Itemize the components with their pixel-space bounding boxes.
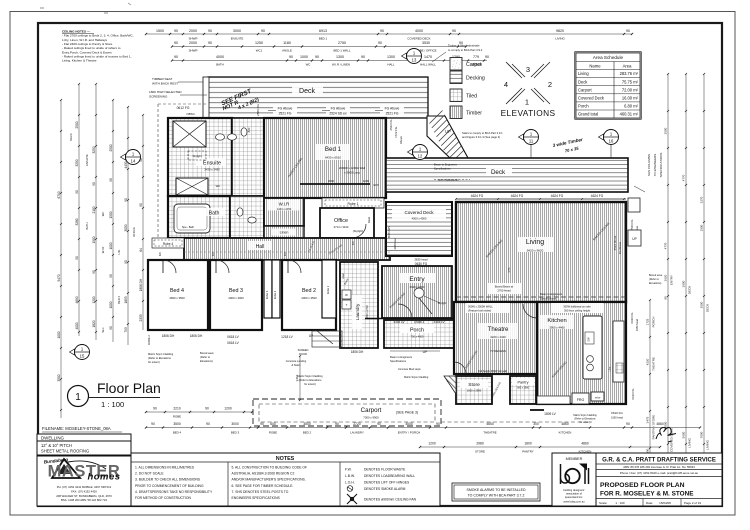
svg-text:Office: Office — [334, 218, 348, 224]
svg-text:Carport: Carport — [578, 87, 593, 92]
svg-text:4690 x 3500: 4690 x 3500 — [169, 296, 185, 300]
svg-text:Scale:: Scale: — [599, 501, 608, 505]
bed 4 — [148, 260, 208, 330]
svg-text:Bed 2: Bed 2 — [302, 288, 316, 294]
svg-text:90: 90 — [206, 422, 210, 426]
svg-text:Living, Kitchen & Theatre: Living, Kitchen & Theatre — [62, 59, 97, 63]
svg-text:0610 FG: 0610 FG — [611, 411, 623, 415]
svg-text:Store: Store — [468, 382, 480, 388]
svg-text:www.bdaq.com.au: www.bdaq.com.au — [563, 500, 585, 504]
svg-text:90: 90 — [436, 422, 440, 426]
svg-text:2404 LV: 2404 LV — [394, 320, 405, 324]
svg-text:90: 90 — [626, 29, 630, 33]
svg-text:Date:: Date: — [646, 501, 653, 505]
svg-text:4770: 4770 — [664, 242, 668, 249]
svg-text:4000: 4000 — [216, 55, 224, 59]
bath wc tiled strip — [230, 196, 264, 238]
title block — [596, 453, 722, 506]
svg-text:DENOTES ø900mm CEILING FAN: DENOTES ø900mm CEILING FAN — [364, 498, 417, 502]
member bdaq box — [552, 453, 596, 506]
svg-text:SHWR: SHWR — [189, 49, 198, 53]
beam dashes across living — [456, 296, 626, 298]
elevation marker 1/15 — [70, 345, 90, 360]
frg box — [572, 393, 589, 404]
svg-text:ANGLE: ANGLE — [282, 49, 292, 53]
svg-text:FG Above: FG Above — [618, 241, 622, 254]
svg-text:2750: 2750 — [338, 41, 346, 45]
svg-text:Above: Above — [399, 136, 403, 144]
svg-text:PRIOR TO COMMENCEMENT OF BUILD: PRIOR TO COMMENCEMENT OF BUILDING — [135, 484, 204, 488]
svg-text:1650 head: 1650 head — [636, 318, 639, 330]
svg-text:3280: 3280 — [75, 218, 79, 225]
svg-text:F.W.: F.W. — [345, 468, 352, 472]
kitchen bottom bench — [537, 396, 570, 404]
svg-text:3500: 3500 — [57, 374, 61, 381]
svg-text:WITH BACK REST: WITH BACK REST — [152, 82, 178, 86]
svg-text:12° & 10° PITCH: 12° & 10° PITCH — [41, 443, 72, 448]
svg-text:11: 11 — [529, 139, 534, 144]
svg-text:90: 90 — [335, 422, 339, 426]
robe strip right of bed 2 — [322, 260, 336, 318]
bed 3 — [210, 260, 262, 330]
svg-text:1800 HIGH SELECTED: 1800 HIGH SELECTED — [149, 90, 182, 94]
svg-text:to comply to BCA Part 3.9.2: to comply to BCA Part 3.9.2 — [448, 48, 483, 52]
svg-text:UP: UP — [445, 129, 451, 134]
svg-text:1600 x 2710: 1600 x 2710 — [366, 305, 369, 319]
svg-text:LIN.: LIN. — [117, 249, 121, 254]
svg-text:90: 90 — [208, 41, 212, 45]
bottom dimension row main — [146, 427, 700, 429]
svg-text:W.C: W.C — [101, 327, 105, 332]
svg-text:ELEVATIONS: ELEVATIONS — [501, 108, 556, 118]
legend carpet swatch — [450, 58, 462, 71]
svg-text:90: 90 — [261, 29, 265, 33]
svg-text:90: 90 — [380, 29, 384, 33]
svg-text:Carport: Carport — [361, 407, 382, 414]
floor plan title circle — [68, 386, 89, 407]
middle deck band (decking) — [386, 158, 628, 192]
top dimension chain row 1 — [146, 33, 632, 35]
area schedule table — [575, 52, 641, 119]
svg-text:Robe 3: Robe 3 — [265, 290, 269, 299]
svg-text:90: 90 — [174, 41, 178, 45]
svg-text:LAUNDRY: LAUNDRY — [350, 431, 364, 435]
svg-text:DECK: DECK — [706, 304, 710, 312]
svg-text:HALL WALL: HALL WALL — [420, 63, 436, 67]
svg-text:Specifications: Specifications — [390, 359, 407, 363]
svg-text:90: 90 — [260, 422, 264, 426]
svg-text:Covered Deck: Covered Deck — [578, 96, 605, 101]
svg-text:3530: 3530 — [422, 41, 430, 45]
4624 FG window row — [456, 198, 626, 200]
svg-text:ENSUITE: ENSUITE — [85, 154, 89, 166]
svg-text:2714 x 3430: 2714 x 3430 — [334, 225, 349, 229]
svg-text:820: 820 — [159, 251, 162, 256]
svg-text:Matrix Scjon Cladding: Matrix Scjon Cladding — [404, 376, 429, 379]
legend decking swatch — [450, 71, 462, 84]
concrete steps — [312, 331, 342, 347]
svg-text:4650: 4650 — [486, 422, 494, 426]
svg-text:1 : 100: 1 : 100 — [615, 501, 625, 505]
svg-text:TO ENGINEERS: TO ENGINEERS — [653, 154, 657, 177]
svg-text:90: 90 — [174, 55, 178, 59]
svg-text:TO COMPLY WITH BCA PART 3.7.2: TO COMPLY WITH BCA PART 3.7.2 — [468, 494, 525, 498]
svg-text:90: 90 — [626, 422, 630, 426]
svg-text:4000: 4000 — [405, 422, 413, 426]
svg-text:L'bo: L'bo — [609, 366, 612, 371]
svg-text:LIVING: LIVING — [555, 36, 565, 40]
svg-text:2000W x 1200H Wall: 2000W x 1200H Wall — [339, 166, 366, 170]
svg-text:3050: 3050 — [124, 224, 128, 231]
svg-text:queensland inc.: queensland inc. — [565, 495, 583, 499]
svg-text:1. ALL DIMENSIONS IN MILLIMETR: 1. ALL DIMENSIONS IN MILLIMETRES — [135, 466, 195, 470]
svg-text:6. SEE PAGE FOR TIMBER S: 6. SEE PAGE FOR TIMBER SCHEDULE. — [232, 484, 294, 488]
svg-text:FG Above: FG Above — [385, 107, 400, 111]
feature wall note — [466, 303, 510, 313]
svg-text:4000: 4000 — [75, 322, 79, 329]
svg-text:1 : 100: 1 : 100 — [101, 400, 124, 409]
svg-text:Linen: Linen — [280, 231, 289, 235]
hall dashes — [184, 251, 390, 253]
linen — [264, 226, 304, 238]
svg-text:Laundry: Laundry — [355, 303, 360, 320]
svg-text:Specifications: Specifications — [434, 167, 451, 171]
svg-text:4000 x 3500: 4000 x 3500 — [301, 296, 317, 300]
svg-text:and Figure 3.9.1.3 (See page 3: and Figure 3.9.1.3 (See page 3) — [462, 135, 500, 139]
svg-text:Boxed eave: Boxed eave — [200, 351, 214, 355]
svg-text:Porch: Porch — [578, 104, 589, 109]
robe 4 dashed — [152, 238, 184, 248]
svg-text:3: 3 — [526, 65, 530, 74]
svg-text:building designers': building designers' — [563, 488, 585, 492]
svg-text:Timber & Wire balustrade: Timber & Wire balustrade — [448, 44, 480, 48]
bed 2 — [282, 260, 336, 330]
svg-text:3000: 3000 — [233, 29, 241, 33]
dwelling box — [37, 434, 131, 441]
svg-text:association of: association of — [566, 492, 582, 496]
svg-text:1300: 1300 — [336, 55, 344, 59]
svg-text:(Refer to Elevations: (Refer to Elevations — [299, 378, 322, 382]
svg-text:3270: 3270 — [700, 196, 704, 203]
svg-text:3000: 3000 — [328, 179, 335, 183]
svg-text:1444 x 2150: 1444 x 2150 — [277, 207, 292, 211]
svg-text:90: 90 — [289, 55, 293, 59]
svg-text:0612 FG: 0612 FG — [177, 106, 190, 110]
svg-text:90: 90 — [315, 55, 319, 59]
svg-text:1200: 1200 — [363, 179, 370, 183]
svg-text:2524 SD ex: 2524 SD ex — [613, 235, 617, 250]
svg-text:Tiled: Tiled — [466, 94, 477, 100]
svg-text:Specifications: Specifications — [540, 297, 557, 301]
svg-text:600: 600 — [270, 422, 276, 426]
svg-text:Boxed eave: Boxed eave — [649, 274, 663, 277]
svg-text:7000: 7000 — [700, 431, 704, 438]
svg-text:W.I.R / LINEN: W.I.R / LINEN — [332, 63, 350, 67]
svg-text:BED 2: BED 2 — [303, 431, 312, 435]
svg-text:2500: 2500 — [664, 127, 668, 134]
svg-text:SHWR: SHWR — [189, 36, 198, 40]
svg-text:GPO: GPO — [373, 184, 379, 187]
svg-text:1000: 1000 — [57, 331, 61, 338]
svg-text:4: 4 — [504, 80, 508, 89]
svg-text:1600 x 2980: 1600 x 2980 — [467, 389, 482, 393]
theatre (timber) — [454, 302, 537, 374]
svg-text:2. DO NOT SCALE: 2. DO NOT SCALE — [135, 472, 164, 476]
svg-text:90: 90 — [174, 29, 178, 33]
ceiling fan symbol — [347, 494, 357, 504]
living (timber) — [456, 202, 626, 302]
svg-text:BATH: BATH — [216, 63, 224, 67]
svg-text:0630 FG: 0630 FG — [630, 313, 634, 324]
svg-text:0618 LV: 0618 LV — [227, 335, 240, 339]
ensuite shower — [173, 121, 206, 147]
svg-text:64: 64 — [139, 248, 143, 252]
pitch box — [37, 441, 131, 455]
office — [320, 208, 374, 238]
svg-text:779: 779 — [473, 55, 479, 59]
svg-text:PROPOSED FLOOR PLAN: PROPOSED FLOOR PLAN — [600, 482, 685, 489]
svg-text:90: 90 — [205, 407, 209, 411]
svg-text:Concrete Landing: Concrete Landing — [286, 359, 307, 363]
timber seat strip — [203, 77, 209, 118]
svg-text:3900 x 4460: 3900 x 4460 — [549, 326, 565, 330]
svg-text:(Refer to: (Refer to — [649, 278, 659, 281]
svg-text:Name: Name — [589, 64, 601, 69]
W.I.R (timber) — [264, 198, 304, 226]
robe 1 dashed strip — [322, 198, 384, 208]
svg-text:1470: 1470 — [424, 55, 432, 59]
svg-text:ROBE: ROBE — [173, 415, 181, 419]
svg-text:Bed 3: Bed 3 — [229, 288, 243, 294]
dim 3410 vertical — [299, 356, 301, 400]
legend tiled swatch — [450, 89, 462, 102]
elevation marker 1/14 — [121, 150, 141, 165]
svg-text:1300: 1300 — [387, 55, 395, 59]
svg-text:300 from ceiling height: 300 from ceiling height — [564, 309, 590, 313]
svg-text:90: 90 — [139, 203, 143, 207]
svg-text:90: 90 — [109, 326, 113, 330]
svg-text:PANTRY: PANTRY — [522, 450, 534, 454]
elevation marker 1/11 — [519, 130, 539, 145]
svg-text:4860: 4860 — [561, 422, 569, 426]
svg-text:Skylight: Skylight — [192, 154, 201, 158]
svg-text:FG Above: FG Above — [278, 107, 293, 111]
svg-text:Deck: Deck — [299, 88, 315, 95]
svg-text:LIVING: LIVING — [706, 439, 710, 450]
svg-text:Boxed Beam at: Boxed Beam at — [495, 285, 514, 289]
svg-text:2520 FG: 2520 FG — [630, 220, 634, 231]
svg-text:1: 1 — [525, 98, 529, 107]
svg-text:Theatre: Theatre — [488, 327, 509, 333]
top dimension chain row 3 — [172, 60, 487, 62]
svg-text:PORCH: PORCH — [652, 317, 656, 328]
pantry (tiled) — [510, 376, 536, 404]
svg-text:2000: 2000 — [189, 29, 197, 33]
svg-text:300W x 2500H WALL: 300W x 2500H WALL — [468, 305, 493, 309]
svg-text:Linen: Linen — [342, 272, 345, 279]
bath (tiled) — [168, 196, 230, 238]
svg-text:300: 300 — [533, 422, 539, 426]
m/w box — [591, 392, 604, 401]
svg-text:13: 13 — [412, 58, 417, 63]
svg-text:15/04/08: 15/04/08 — [659, 501, 671, 505]
svg-text:ENTRY: ENTRY — [670, 275, 674, 285]
svg-text:300W bulkhead on rake: 300W bulkhead on rake — [563, 305, 591, 309]
svg-text:Spa - Bath: Spa - Bath — [182, 225, 195, 229]
svg-text:2600: 2600 — [682, 280, 686, 287]
svg-text:90: 90 — [485, 55, 489, 59]
svg-text:90: 90 — [208, 29, 212, 33]
svg-text:Page 2 of 19: Page 2 of 19 — [684, 501, 701, 505]
svg-text:1180: 1180 — [283, 41, 291, 45]
svg-text:KITCHEN: KITCHEN — [559, 431, 572, 435]
svg-text:W: W — [345, 293, 348, 297]
right dimension chains — [649, 300, 651, 465]
robe strips between bed3/bed2 — [264, 260, 272, 318]
svg-text:7000 x 9900: 7000 x 9900 — [363, 416, 379, 420]
svg-text:(Feature both sides): (Feature both sides) — [468, 309, 491, 313]
svg-text:90: 90 — [75, 190, 79, 194]
svg-text:Desk: Desk — [367, 216, 371, 223]
svg-text:Elevations): Elevations) — [649, 282, 662, 285]
bed 1 (timber) — [264, 118, 386, 198]
svg-text:Matrix Scjon Cladding: Matrix Scjon Cladding — [148, 352, 174, 356]
laundry (tiled) — [340, 262, 378, 348]
bath shower — [176, 178, 208, 195]
svg-text:1806 DH: 1806 DH — [139, 278, 143, 291]
svg-text:2500: 2500 — [75, 121, 79, 128]
svg-text:4220 x 4440: 4220 x 4440 — [490, 335, 506, 339]
svg-text:5470: 5470 — [57, 274, 61, 281]
svg-text:300 OVERHANG: 300 OVERHANG — [438, 178, 459, 182]
svg-text:W.I.R: W.I.R — [101, 247, 105, 254]
svg-text:Phone / Fax: (07) 4152 8440 e-: Phone / Fax: (07) 4152 8440 e-mail: prat… — [620, 471, 699, 475]
svg-text:1605 head: 1605 head — [394, 238, 397, 250]
top deck (decking hatch) — [208, 77, 428, 118]
svg-text:Porch: Porch — [410, 328, 424, 334]
svg-text:9820: 9820 — [556, 29, 564, 33]
svg-text:L.B.W.: L.B.W. — [345, 474, 355, 478]
svg-text:Robe 4: Robe 4 — [163, 242, 174, 246]
registration marks — [40, 7, 44, 9]
svg-text:ROBE 2: ROBE 2 — [147, 335, 151, 345]
svg-text:3500: 3500 — [173, 422, 181, 426]
svg-text:4. DRAFTSPERSONS TAKE NO RESPO: 4. DRAFTSPERSONS TAKE NO RESPONSIBILITY — [135, 490, 213, 494]
svg-text:FG Above: FG Above — [331, 107, 346, 111]
svg-text:9618 AWN: 9618 AWN — [387, 226, 391, 238]
svg-text:4770: 4770 — [682, 174, 686, 181]
ensuite label — [196, 158, 226, 166]
svg-text:1725: 1725 — [646, 318, 650, 325]
svg-text:DENOTES SMOKE ALARM: DENOTES SMOKE ALARM — [364, 487, 406, 491]
svg-text:Beam to Engineers: Beam to Engineers — [390, 355, 413, 359]
svg-text:Grand total: Grand total — [578, 112, 598, 117]
svg-text:COVERED DECK: COVERED DECK — [407, 36, 430, 40]
svg-text:2210: 2210 — [173, 407, 181, 411]
svg-text:3. BUILDER TO CHECK ALL DIMENS: 3. BUILDER TO CHECK ALL DIMENSIONS — [135, 478, 201, 482]
svg-text:6913: 6913 — [319, 29, 327, 33]
signature squiggle — [656, 427, 676, 442]
svg-text:1: 1 — [75, 392, 81, 403]
svg-text:Area: Area — [623, 64, 633, 69]
svg-text:BED 3: BED 3 — [231, 431, 240, 435]
svg-text:SPECIFICATIONS: SPECIFICATIONS — [659, 153, 663, 178]
svg-text:16: 16 — [609, 139, 614, 144]
svg-text:2620: 2620 — [664, 274, 668, 281]
svg-text:LIVING: LIVING — [688, 437, 692, 448]
svg-text:AND/OR MANUFACTURER'S SPECIFIC: AND/OR MANUFACTURER'S SPECIFICATIONS. — [232, 478, 306, 482]
svg-text:(SEE PAGE 3): (SEE PAGE 3) — [396, 411, 418, 415]
svg-text:ENGINEERS SPECIFICATIONS: ENGINEERS SPECIFICATIONS — [232, 496, 281, 500]
svg-text:AUSTRALIA, AS1684.3-2006 REGIO: AUSTRALIA, AS1684.3-2006 REGION C2 — [232, 472, 295, 476]
svg-text:15: 15 — [80, 354, 85, 359]
svg-text:Carpet: Carpet — [466, 62, 482, 68]
svg-text:L.O.H.: L.O.H. — [345, 481, 355, 485]
svg-text:75.75 m²: 75.75 m² — [622, 79, 639, 84]
svg-text:WC: WC — [306, 63, 311, 67]
svg-text:Floor Plan: Floor Plan — [97, 380, 161, 396]
svg-text:Bath: Bath — [209, 211, 220, 217]
svg-text:(Refer to: (Refer to — [200, 355, 211, 359]
spa bath — [174, 204, 210, 233]
svg-text:m/w: m/w — [595, 396, 601, 400]
smoke alarm box — [452, 483, 540, 501]
bulkhead note — [551, 303, 603, 313]
svg-text:Kitchen: Kitchen — [547, 318, 566, 324]
svg-text:2720: 2720 — [353, 422, 361, 426]
svg-text:UP: UP — [632, 237, 636, 241]
skylight dashed — [188, 151, 206, 160]
svg-text:Beam to Engineers: Beam to Engineers — [434, 163, 458, 167]
svg-text:Timber: Timber — [466, 111, 482, 117]
svg-text:DECK: DECK — [688, 286, 692, 294]
svg-text:2980: 2980 — [476, 442, 484, 446]
kitchen right bench — [613, 321, 624, 382]
svg-text:BSA: 1108 203 ABN: 58: BSA: 1108 203 ABN: 58 122 862 724 — [61, 498, 107, 502]
svg-text:90: 90 — [109, 274, 113, 278]
entry (timber) — [382, 266, 452, 318]
svg-text:4000 x 3000: 4000 x 3000 — [228, 296, 244, 300]
svg-text:HALL: HALL — [387, 63, 395, 67]
svg-text:460.31 m²: 460.31 m² — [620, 112, 639, 117]
svg-text:(Refer to Elevations: (Refer to Elevations — [148, 356, 171, 360]
svg-text:3410: 3410 — [295, 374, 299, 381]
svg-text:Robe 1: Robe 1 — [326, 285, 330, 294]
svg-text:homes: homes — [87, 472, 120, 483]
bath wc toilet — [237, 208, 243, 216]
svg-text:1500: 1500 — [156, 29, 164, 33]
svg-text:Area Schedule: Area Schedule — [593, 55, 624, 60]
svg-text:0618 LV: 0618 LV — [227, 341, 240, 345]
svg-text:Living: Living — [526, 239, 544, 246]
svg-text:0610 FG: 0610 FG — [631, 389, 635, 400]
door swing arcs — [163, 260, 176, 273]
svg-text:3250: 3250 — [75, 159, 79, 166]
svg-text:BED 4: BED 4 — [117, 296, 121, 304]
svg-text:T: T — [346, 303, 348, 307]
ensuite (tiled) — [168, 118, 232, 196]
svg-text:2000: 2000 — [189, 41, 197, 45]
svg-text:W.I.R: W.I.R — [279, 202, 290, 207]
svg-text:1650 head: 1650 head — [611, 417, 623, 420]
svg-text:Deck: Deck — [578, 79, 588, 84]
svg-text:90: 90 — [151, 422, 155, 426]
stairs top right (diagonal hatch) — [427, 116, 468, 158]
svg-text:820: 820 — [247, 127, 251, 132]
svg-text:DECK: DECK — [69, 133, 73, 141]
svg-text:(Skylight): (Skylight) — [353, 230, 364, 233]
svg-text:90: 90 — [377, 422, 381, 426]
